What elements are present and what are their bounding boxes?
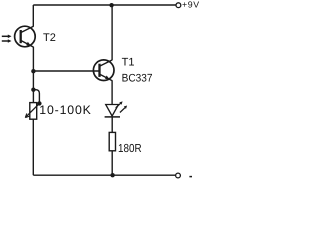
svg-text:10-100K: 10-100K (39, 103, 91, 117)
svg-text:180R: 180R (118, 142, 142, 155)
svg-text:T2: T2 (43, 32, 56, 44)
svg-text:BC337: BC337 (122, 73, 153, 85)
svg-text:T1: T1 (122, 56, 135, 68)
svg-text:+9V: +9V (182, 0, 200, 10)
